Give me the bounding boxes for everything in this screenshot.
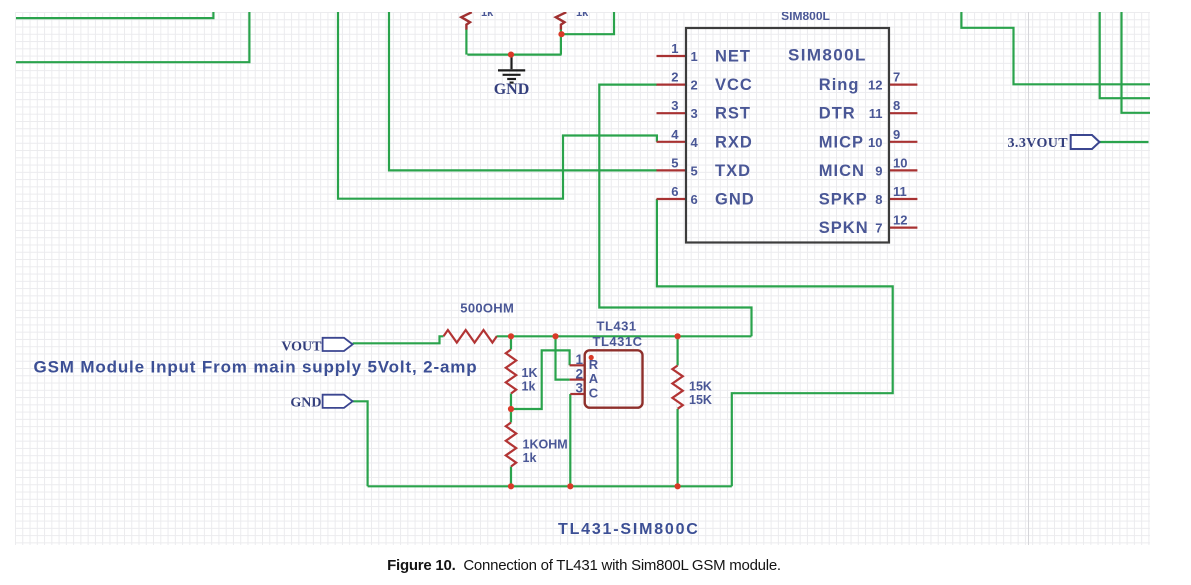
junction dot rail at 1K	[508, 333, 514, 339]
wire bottom rail	[368, 485, 732, 487]
wire GND pin6 net	[657, 199, 893, 486]
wire top cluster bottom link	[467, 53, 561, 55]
svg-text:2: 2	[575, 366, 583, 381]
resistor R_top2 (cut at top)	[556, 12, 567, 29]
pin stub U1 pin10	[889, 169, 917, 171]
svg-text:11: 11	[869, 106, 883, 121]
pin stub U1 pin11	[889, 198, 917, 200]
svg-text:10: 10	[868, 135, 882, 150]
svg-text:GSM Module Input From main sup: GSM Module Input From main supply 5Volt,…	[34, 358, 478, 377]
wire top-left horizontal B	[16, 12, 249, 62]
svg-text:1K: 1K	[522, 366, 538, 380]
column separator line	[1028, 12, 1029, 545]
wire top-right W3	[1122, 12, 1151, 113]
svg-text:TXD: TXD	[715, 162, 751, 180]
svg-text:R: R	[589, 357, 599, 372]
svg-text:RST: RST	[715, 105, 751, 123]
svg-text:10: 10	[893, 155, 907, 170]
TL431 pin1 marker dot	[589, 355, 594, 360]
svg-text:15K: 15K	[689, 380, 712, 394]
resistor R500 500OHM	[444, 330, 497, 343]
wire top-right W1	[961, 12, 1150, 84]
wire GND flag down	[353, 401, 368, 486]
junction dot top cluster	[558, 31, 564, 37]
pin stub U1 pin6	[657, 198, 687, 200]
svg-text:9: 9	[875, 163, 882, 178]
svg-text:Figure 10. Connection of TL43: Figure 10. Connection of TL431 with Sim8…	[387, 557, 781, 574]
junction dot divider mid	[508, 406, 514, 412]
svg-text:Ring: Ring	[819, 76, 860, 94]
ground symbol	[498, 55, 525, 83]
pin stub U1 pin4	[657, 141, 687, 143]
svg-text:1k: 1k	[576, 7, 589, 19]
pin stub TL431 pin2	[570, 379, 585, 381]
wire top cluster right lead	[560, 29, 562, 55]
svg-text:4: 4	[691, 135, 699, 150]
resistor R1K 1K	[506, 350, 516, 394]
wire 1KOHM leads	[510, 409, 512, 486]
svg-text:GND: GND	[494, 81, 530, 98]
pin stub U1 pin3	[657, 112, 687, 114]
wire 1K leads	[510, 336, 512, 409]
IC U2 TL431C box	[585, 350, 643, 407]
svg-text:DTR: DTR	[819, 105, 856, 123]
svg-text:9: 9	[893, 127, 900, 142]
resistor R_top1 (cut at top)	[461, 12, 472, 29]
junction dot bottom rail 2	[567, 483, 573, 489]
svg-text:GND: GND	[290, 396, 321, 411]
junction dot rail at 15K	[675, 333, 681, 339]
wire TXD net	[389, 12, 657, 170]
svg-text:1: 1	[575, 352, 583, 367]
svg-text:VOUT: VOUT	[281, 340, 322, 355]
pin stub U1 pin5	[657, 169, 687, 171]
svg-text:8: 8	[893, 98, 900, 113]
pin stub U1 pin7	[889, 83, 917, 85]
wire top rail TL431	[497, 335, 752, 337]
pin stub U1 pin12	[889, 227, 917, 229]
svg-text:11: 11	[893, 184, 907, 199]
svg-text:RXD: RXD	[715, 133, 753, 151]
svg-text:1: 1	[671, 41, 678, 56]
svg-text:TL431C: TL431C	[593, 334, 643, 349]
svg-text:SPKP: SPKP	[819, 191, 868, 209]
svg-text:1: 1	[691, 49, 698, 64]
svg-text:TL431-SIM800C: TL431-SIM800C	[558, 521, 700, 538]
wire RXD net	[338, 12, 657, 199]
flag 3.3VOUT	[1071, 135, 1100, 149]
svg-text:SIM800L: SIM800L	[781, 9, 830, 23]
wire top resistor cluster left lead	[465, 29, 467, 55]
svg-text:A: A	[589, 371, 599, 386]
svg-text:6: 6	[671, 184, 678, 199]
svg-text:1k: 1k	[522, 380, 536, 394]
svg-text:3.3VOUT: 3.3VOUT	[1008, 136, 1069, 151]
wire 3.3VOUT flag	[1100, 141, 1149, 143]
svg-text:6: 6	[691, 192, 698, 207]
pin stub U1 pin2	[657, 83, 687, 85]
svg-text:7: 7	[893, 70, 900, 85]
junction dot rail at pin2 drop	[552, 333, 558, 339]
svg-text:NET: NET	[715, 48, 751, 66]
IC U1 SIM800L box	[686, 28, 889, 243]
junction dot bottom rail 3	[675, 483, 681, 489]
svg-text:5: 5	[671, 155, 678, 170]
pin stub U1 pin9	[889, 141, 917, 143]
wire VOUT to 500OHM	[353, 336, 444, 343]
svg-text:MICP: MICP	[819, 133, 864, 151]
pin stub U1 pin1	[657, 55, 687, 57]
svg-text:8: 8	[875, 192, 882, 207]
pin stub TL431 pin3	[570, 393, 585, 395]
pin stub U1 pin8	[889, 112, 917, 114]
wire rail to TL431 pin2	[556, 336, 570, 379]
svg-text:12: 12	[893, 213, 907, 228]
wire TL431 pin3 to bottom rail	[569, 394, 571, 486]
wire top-right W2	[1100, 12, 1150, 98]
flag GND	[323, 395, 353, 408]
svg-text:MICN: MICN	[819, 162, 865, 180]
svg-text:C: C	[589, 385, 599, 400]
junction dot top GND tap	[508, 52, 514, 58]
wire VCC net	[599, 85, 751, 337]
svg-text:SPKN: SPKN	[819, 219, 869, 237]
svg-text:3: 3	[575, 381, 583, 396]
svg-text:GND: GND	[715, 191, 755, 209]
junction dot bottom rail 1	[508, 483, 514, 489]
svg-text:500OHM: 500OHM	[460, 301, 514, 316]
svg-text:3: 3	[691, 106, 698, 121]
svg-text:1k: 1k	[523, 451, 537, 465]
wire top cluster to top edge	[562, 12, 615, 34]
wire 15K leads	[676, 336, 678, 486]
svg-text:15K: 15K	[689, 393, 712, 407]
svg-text:1k: 1k	[481, 7, 494, 19]
resistor R1KOHM 1KOHM	[506, 423, 516, 467]
wire top-left horizontal A	[16, 12, 213, 18]
pin stub TL431 pin1	[570, 364, 585, 366]
svg-text:4: 4	[671, 127, 679, 142]
svg-text:SIM800L: SIM800L	[788, 46, 867, 65]
svg-text:12: 12	[868, 78, 882, 93]
svg-text:5: 5	[691, 163, 698, 178]
resistor R15K 15K	[672, 366, 682, 409]
svg-text:TL431: TL431	[597, 319, 637, 334]
svg-text:2: 2	[671, 70, 678, 85]
svg-text:1KOHM: 1KOHM	[523, 438, 568, 452]
svg-text:3: 3	[671, 98, 678, 113]
svg-text:2: 2	[691, 78, 698, 93]
svg-text:7: 7	[875, 221, 882, 236]
svg-text:VCC: VCC	[715, 76, 753, 94]
wire divider mid to TL431 pin1	[511, 350, 570, 409]
flag VOUT	[323, 338, 353, 351]
